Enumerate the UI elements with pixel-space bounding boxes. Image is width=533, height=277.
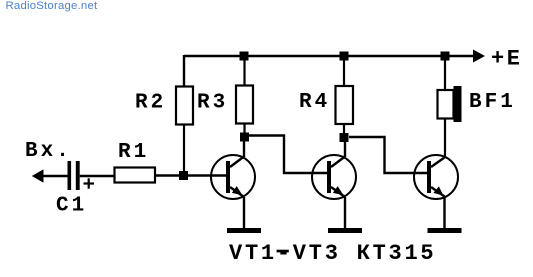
wire stage1 to VT2 base (249, 136, 327, 174)
wire VT1 collector to node (243, 137, 245, 157)
resistor R3 (236, 60, 253, 134)
svg-text:R3: R3 (197, 92, 228, 115)
wire R1 to base node (155, 174, 227, 176)
terminal arrow +E (473, 50, 485, 63)
svg-text:R2: R2 (135, 92, 166, 115)
site logo RadioStorage.net (6, 1, 98, 12)
node junction R4-VT2 collector (340, 133, 349, 142)
wire top supply rail (184, 55, 474, 57)
wire input to C1 (43, 175, 69, 177)
node junction rail-R4 (340, 52, 349, 61)
node junction R2-R1-VT1 base (179, 171, 188, 180)
svg-text:Вх.: Вх. (25, 140, 72, 163)
terminal input arrow (32, 169, 44, 182)
polarity plus of C1 (84, 178, 95, 188)
svg-text:VT1-VT3 КТ315: VT1-VT3 КТ315 (229, 241, 436, 266)
resistor R4 (336, 60, 354, 134)
svg-text:+E: +E (491, 47, 523, 72)
svg-text:BF1: BF1 (469, 91, 516, 114)
node junction rail-BF1 (441, 52, 450, 61)
resistor R2 (176, 87, 193, 173)
capacitor C1 (68, 161, 80, 190)
earphone BF1 (438, 60, 462, 157)
transistor VT1 (211, 155, 261, 233)
wire C1 to R1 (80, 175, 115, 177)
wire stage2 to VT3 base (349, 137, 427, 173)
svg-text:R1: R1 (118, 141, 149, 164)
svg-text:R4: R4 (299, 91, 330, 114)
transistor VT2 (312, 155, 362, 233)
resistor R1 (115, 168, 156, 183)
wire VT2 collector to node (344, 138, 346, 157)
node junction rail-R3 (240, 52, 249, 61)
wire rail left drop to R2 (183, 55, 185, 87)
transistor VT3 (414, 155, 462, 233)
wide dash of VT1-VT3 (277, 250, 289, 253)
svg-text:C1: C1 (56, 195, 87, 218)
node junction R3-VT1 collector (240, 133, 249, 142)
